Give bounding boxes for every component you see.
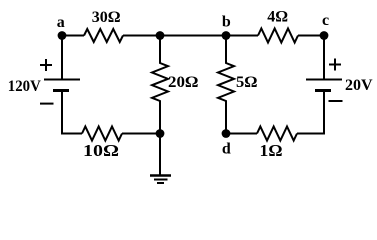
resistor R 4ohm bbox=[258, 29, 298, 43]
battery V2 20V long plate bbox=[306, 79, 342, 81]
svg-text:10Ω: 10Ω bbox=[83, 141, 119, 160]
battery V2 minus sign bbox=[329, 100, 343, 102]
svg-text:120V: 120V bbox=[8, 78, 41, 95]
node b bbox=[222, 31, 231, 40]
resistor R 20ohm vertical bbox=[152, 36, 168, 134]
wire top middle bbox=[123, 35, 258, 37]
node d bbox=[222, 129, 231, 138]
node junction top (20ohm) bbox=[156, 31, 165, 40]
wire top from a through resistors to c bbox=[62, 35, 84, 37]
wire bottom right corner up to battery bbox=[297, 92, 324, 134]
battery V1 120V long plate bbox=[44, 79, 80, 81]
wire left down from a to battery bbox=[61, 36, 63, 79]
ground bbox=[159, 134, 161, 176]
svg-text:20V: 20V bbox=[345, 77, 373, 94]
resistor R 1ohm bbox=[257, 127, 297, 141]
svg-text:c: c bbox=[322, 12, 329, 29]
wire right from c down to battery bbox=[323, 36, 325, 79]
resistor R 5ohm vertical bbox=[218, 36, 234, 134]
svg-text:30Ω: 30Ω bbox=[92, 9, 121, 26]
node c bbox=[320, 31, 329, 40]
wire bottom right from d through 1ohm bbox=[226, 133, 257, 135]
svg-text:20Ω: 20Ω bbox=[168, 74, 199, 91]
svg-text:4Ω: 4Ω bbox=[267, 9, 288, 26]
resistor R 30ohm bbox=[84, 29, 123, 42]
battery V1 plus sign bbox=[40, 59, 52, 71]
node a bbox=[58, 31, 67, 40]
resistor R 10ohm bbox=[82, 127, 122, 141]
wire bottom left to ground junction bbox=[122, 133, 160, 135]
svg-text:d: d bbox=[222, 141, 231, 158]
battery V1 minus sign bbox=[40, 103, 54, 105]
wire left down from battery to bottom bbox=[62, 91, 82, 134]
battery V2 plus sign bbox=[329, 59, 341, 71]
wire top right to c bbox=[298, 35, 324, 37]
battery V1 120V short plate bbox=[53, 89, 69, 92]
svg-text:1Ω: 1Ω bbox=[260, 141, 283, 160]
svg-text:a: a bbox=[57, 14, 65, 31]
battery V2 20V short plate bbox=[315, 89, 331, 92]
svg-text:5Ω: 5Ω bbox=[236, 74, 258, 91]
svg-text:b: b bbox=[222, 13, 231, 30]
node junction bottom (ground) bbox=[156, 129, 165, 138]
